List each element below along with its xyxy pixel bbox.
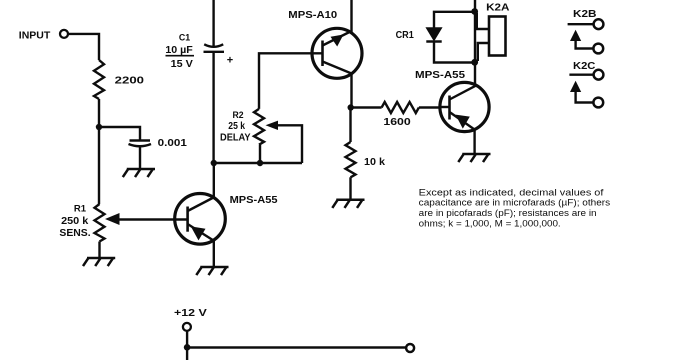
wire Q3 emitter to ground bbox=[473, 130, 475, 155]
svg-text:K2B: K2B bbox=[573, 9, 597, 20]
wire Q2 collector down to node C bbox=[351, 74, 382, 108]
relay coil K2A bbox=[477, 2, 510, 61]
+12V terminal bbox=[174, 308, 207, 331]
note text block bbox=[419, 187, 611, 228]
svg-text:CR1: CR1 bbox=[396, 30, 415, 41]
wire +12V bus to output terminal bbox=[187, 346, 406, 348]
svg-text:1600: 1600 bbox=[383, 117, 411, 128]
svg-text:MPS-A55: MPS-A55 bbox=[230, 195, 278, 206]
wire 1600 to Q3 base bbox=[419, 106, 440, 108]
svg-text:10 µF: 10 µF bbox=[165, 45, 192, 56]
svg-text:C1: C1 bbox=[179, 33, 191, 44]
svg-text:25 k: 25 k bbox=[228, 121, 245, 132]
node F junction bbox=[184, 344, 191, 351]
wire node A to C2 bbox=[99, 127, 140, 140]
svg-text:Except as indicated, decimal v: Except as indicated, decimal values of bbox=[419, 187, 604, 197]
wire C1 down to node B bbox=[212, 52, 214, 163]
svg-text:R2: R2 bbox=[233, 110, 244, 121]
svg-text:10 k: 10 k bbox=[364, 157, 385, 168]
diode CR1 bbox=[396, 28, 442, 42]
potentiometer R2 25k DELAY bbox=[220, 109, 302, 163]
svg-text:250 k: 250 k bbox=[61, 216, 89, 227]
input terminal bbox=[19, 30, 68, 42]
svg-text:DELAY: DELAY bbox=[220, 132, 251, 143]
capacitor C1 10uF 15V bbox=[165, 33, 233, 70]
relay contact K2B bbox=[568, 9, 604, 53]
transistor Q3 MPS-A55 (right) bbox=[415, 70, 489, 132]
ground under C2 bbox=[123, 169, 155, 177]
transistor Q2 MPS-A10 bbox=[288, 10, 362, 79]
transistor Q1 MPS-A55 (left) bbox=[175, 194, 278, 245]
ground under R1 bbox=[83, 258, 115, 266]
wire input to 2200 bbox=[68, 34, 99, 60]
wire R1 to ground bbox=[98, 242, 100, 258]
wire node C to 10k bbox=[349, 108, 351, 143]
svg-text:2200: 2200 bbox=[115, 75, 144, 87]
wire Q1 emitter to ground bbox=[213, 240, 215, 266]
resistor 10k bbox=[346, 142, 386, 177]
node E junction (bottom of CR1) bbox=[471, 59, 478, 66]
resistor R 2200 bbox=[94, 60, 144, 99]
ground under 10k bbox=[332, 200, 364, 208]
svg-text:+: + bbox=[227, 55, 233, 67]
svg-text:0.001: 0.001 bbox=[158, 138, 188, 149]
svg-text:SENS.: SENS. bbox=[59, 228, 90, 239]
svg-text:15 V: 15 V bbox=[171, 59, 194, 70]
capacitor C2 0.001 bbox=[129, 138, 188, 149]
wire Q1 collector up to node B bbox=[213, 163, 215, 198]
svg-text:+12 V: +12 V bbox=[174, 308, 207, 319]
node D junction (top of CR1) bbox=[471, 8, 478, 15]
node B junction bbox=[211, 160, 217, 166]
potentiometer R1 250k bbox=[59, 204, 187, 242]
wire +12V down bbox=[186, 331, 188, 360]
svg-text:MPS-A55: MPS-A55 bbox=[415, 70, 465, 81]
node A junction bbox=[96, 124, 102, 130]
node R2 bottom junction bbox=[257, 160, 263, 166]
svg-text:are in picofarads (pF); resist: are in picofarads (pF); resistances are … bbox=[419, 208, 597, 218]
node C junction bbox=[348, 104, 354, 110]
wire R2 top to MPS-A10 base bbox=[259, 53, 323, 109]
wire 10k to ground bbox=[349, 177, 351, 198]
resistor 1600 bbox=[382, 102, 419, 128]
svg-text:ohms; k = 1,000, M = 1,000,000: ohms; k = 1,000, M = 1,000,000. bbox=[419, 219, 561, 229]
wire CR1 branch bbox=[434, 12, 475, 63]
wire C2 to ground bbox=[139, 147, 141, 169]
wire 2200 to node A bbox=[98, 99, 100, 127]
svg-text:R1: R1 bbox=[74, 204, 87, 215]
wire top supply K2A line bbox=[474, 0, 476, 86]
wire bus node B to R2 bottom bbox=[214, 162, 302, 164]
svg-text:K2A: K2A bbox=[486, 2, 509, 13]
svg-text:INPUT: INPUT bbox=[19, 31, 50, 42]
ground under Q1 bbox=[196, 267, 228, 275]
relay contact K2C bbox=[569, 61, 603, 107]
svg-text:K2C: K2C bbox=[573, 61, 595, 72]
svg-text:capacitance are in microfarads: capacitance are in microfarads (µF); oth… bbox=[419, 198, 611, 208]
wire top supply to C1 bbox=[212, 0, 214, 46]
ground under Q3 bbox=[458, 154, 490, 162]
svg-text:MPS-A10: MPS-A10 bbox=[288, 10, 337, 21]
output terminal (bottom right) bbox=[406, 344, 414, 352]
wire top supply to MPS-A10 bbox=[350, 0, 352, 34]
wire node A to R1 bbox=[98, 127, 100, 204]
